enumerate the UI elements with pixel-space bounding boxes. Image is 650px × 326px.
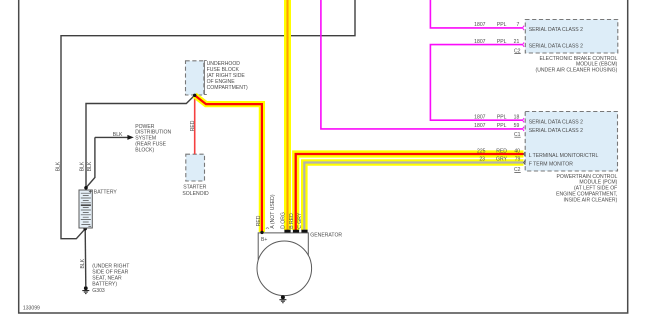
svg-text:1807: 1807 [474, 114, 485, 120]
svg-text:21: 21 [514, 39, 520, 45]
svg-text:PPL: PPL [497, 123, 507, 129]
svg-text:1807: 1807 [474, 123, 485, 129]
svg-text:59: 59 [514, 123, 520, 129]
svg-text:40: 40 [514, 148, 520, 154]
svg-text:B RED: B RED [289, 213, 295, 229]
svg-text:225: 225 [477, 148, 486, 154]
svg-text:SERIAL DATA CLASS 2: SERIAL DATA CLASS 2 [529, 128, 583, 134]
svg-text:SYSTEM: SYSTEM [135, 136, 156, 142]
svg-text:RED: RED [190, 120, 196, 131]
svg-text:BLK: BLK [87, 161, 93, 171]
svg-text:18: 18 [514, 114, 520, 120]
svg-text:BATTERY: BATTERY [94, 190, 118, 196]
svg-text:GRY: GRY [496, 157, 508, 163]
svg-text:COMPARTMENT): COMPARTMENT) [207, 85, 248, 91]
svg-text:BLOCK): BLOCK) [135, 148, 154, 154]
svg-text:SERIAL DATA CLASS 2: SERIAL DATA CLASS 2 [529, 27, 583, 33]
svg-text:RED: RED [496, 148, 507, 154]
svg-text:L TERMINAL MONITOR/CTRL: L TERMINAL MONITOR/CTRL [529, 153, 599, 159]
svg-text:B+: B+ [261, 237, 267, 243]
svg-text:G303: G303 [92, 288, 105, 294]
svg-text:INSIDE AIR CLEANER): INSIDE AIR CLEANER) [564, 198, 618, 204]
svg-text:PPL: PPL [497, 22, 507, 28]
svg-text:(UNDER AIR CLEANER HOUSING): (UNDER AIR CLEANER HOUSING) [536, 67, 618, 73]
svg-text:STARTER: STARTER [183, 185, 207, 191]
svg-text:RED: RED [256, 215, 262, 226]
svg-text:7: 7 [516, 22, 519, 28]
svg-text:1807: 1807 [474, 39, 485, 45]
svg-text:BLK: BLK [56, 161, 62, 171]
svg-text:79: 79 [515, 157, 521, 163]
svg-text:C GRY: C GRY [297, 212, 303, 229]
svg-text:SERIAL DATA CLASS 2: SERIAL DATA CLASS 2 [529, 44, 583, 50]
svg-text:BLK: BLK [80, 258, 86, 268]
svg-text:A (NOT USED): A (NOT USED) [270, 194, 276, 228]
svg-text:23: 23 [479, 157, 485, 163]
svg-text:BLK: BLK [80, 161, 86, 171]
svg-text:PPL: PPL [497, 114, 507, 120]
svg-text:1807: 1807 [474, 22, 485, 28]
svg-text:PPL: PPL [497, 39, 507, 45]
svg-text:BLK: BLK [113, 132, 123, 138]
svg-text:SOLENOID: SOLENOID [182, 191, 209, 197]
svg-text:F TERM MONITOR: F TERM MONITOR [529, 161, 574, 167]
svg-text:GENERATOR: GENERATOR [310, 233, 342, 239]
svg-text:133099: 133099 [23, 306, 40, 312]
svg-text:D ORG: D ORG [280, 212, 286, 229]
svg-text:BATTERY): BATTERY) [92, 281, 117, 287]
svg-text:SERIAL DATA CLASS 2: SERIAL DATA CLASS 2 [529, 120, 583, 126]
